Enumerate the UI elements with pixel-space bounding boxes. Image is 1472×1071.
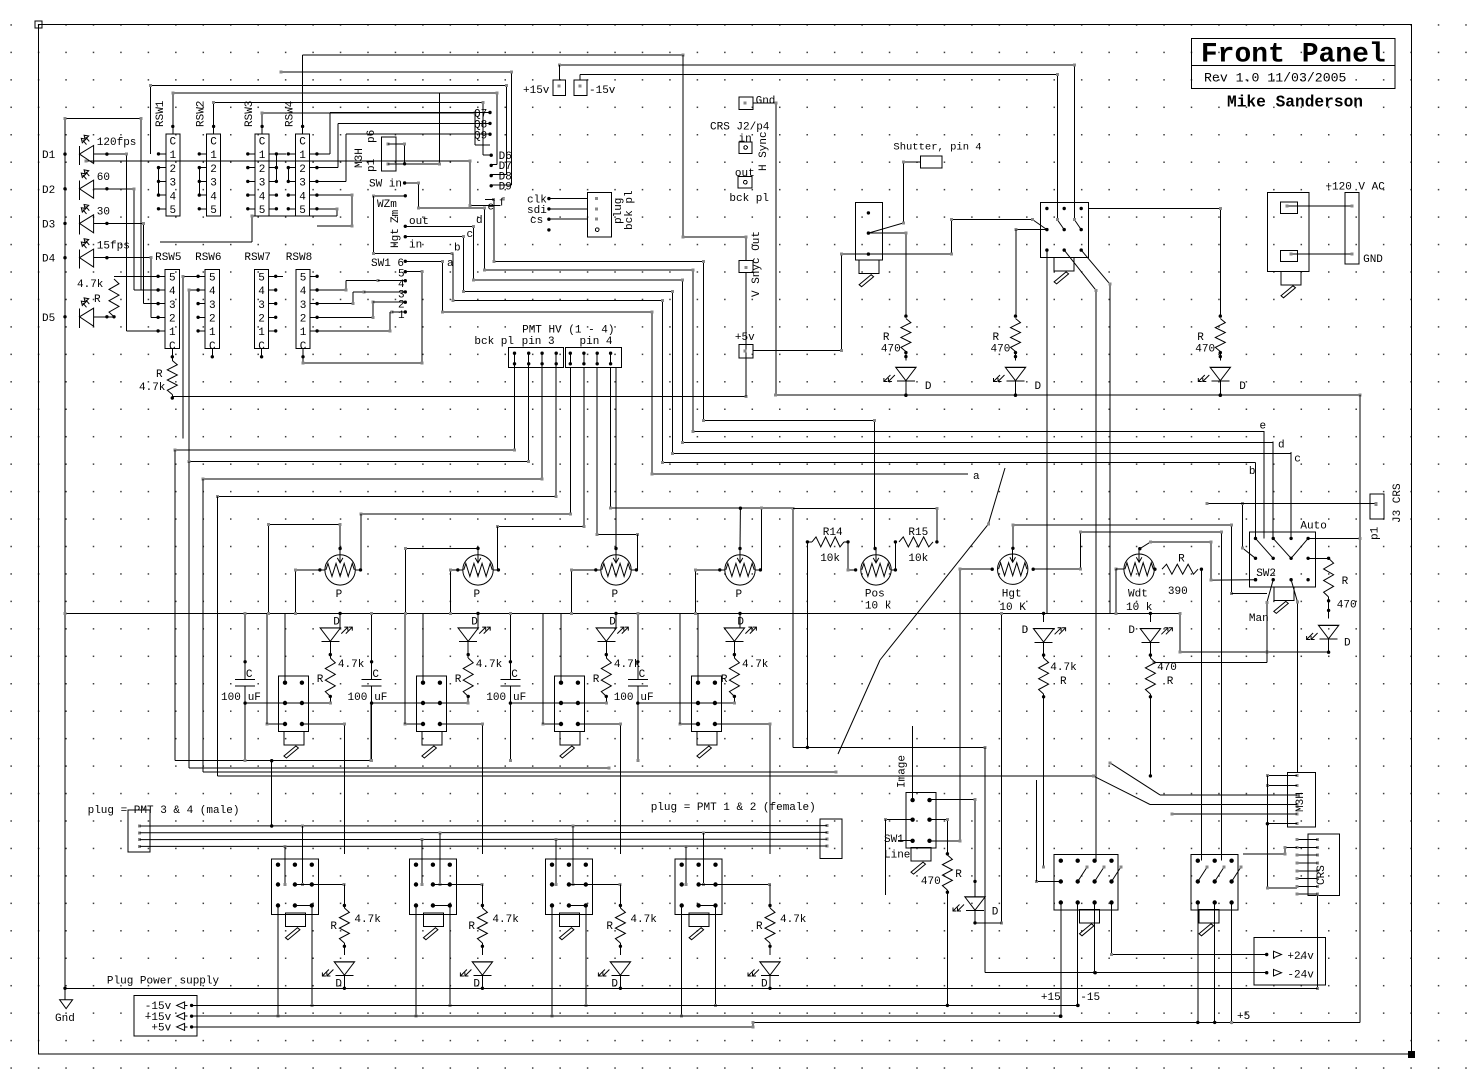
wire P1 left (294, 568, 325, 615)
svg-text:pin 4: pin 4 (580, 336, 613, 348)
svg-text:4.7k: 4.7k (742, 659, 769, 671)
svg-text:2: 2 (169, 314, 176, 326)
wire D1 feed (339, 613, 341, 628)
wire RSW4 bracket a (287, 168, 289, 182)
node R sw2 dots (1327, 599, 1330, 612)
svg-text:P: P (736, 589, 743, 601)
rotary switch RSW1 (166, 134, 180, 216)
wire P2 wiper (404, 547, 479, 615)
wire PMT pin3 drop (202, 364, 544, 481)
wire B3 col3 drop (584, 906, 587, 1007)
node R390 right (1200, 568, 1203, 571)
wire R470-1 to led (905, 352, 907, 361)
svg-text:SW2: SW2 (1256, 568, 1276, 580)
node Hgt led bus (1042, 612, 1045, 615)
LED D (SW2) (1307, 625, 1339, 639)
wire RSW6 pin 3 stub (196, 302, 205, 305)
svg-text:3: 3 (258, 300, 265, 312)
wire M3H pin1 (1266, 774, 1297, 777)
svg-text:R: R (94, 294, 101, 306)
wire C1 col2 drop (1076, 903, 1079, 1008)
wire P1 right riser (360, 514, 362, 570)
wire C2 col2 drop (1213, 903, 1216, 1025)
svg-text:D1: D1 (42, 150, 56, 162)
wire M3H p6 (388, 143, 406, 164)
wire LED B1 gnd (343, 976, 346, 990)
wire -24v in (1254, 972, 1267, 974)
wire WZm left (372, 196, 454, 255)
svg-text:3: 3 (209, 300, 216, 312)
node P2 bus (476, 612, 479, 615)
LED D (R470-2) (994, 367, 1026, 381)
svg-text:D9: D9 (499, 182, 512, 194)
svg-text:2: 2 (209, 314, 216, 326)
svg-text:390: 390 (1168, 586, 1188, 598)
wire RSW3 C pin (260, 125, 263, 134)
switch contact box (P3) (554, 676, 584, 732)
wire V sync down (745, 273, 747, 397)
switch contact box (P2) (416, 676, 446, 732)
wire c drop (1290, 452, 1292, 538)
pin plug bck pl 3 (595, 218, 598, 221)
svg-text:Front Panel: Front Panel (1201, 40, 1386, 71)
svg-text:-15: -15 (1080, 992, 1100, 1004)
rotary switch RSW4 (296, 134, 310, 216)
svg-text:e: e (488, 202, 495, 214)
wire RSW8 pin 2 stub (310, 316, 319, 319)
wire D2 to R (467, 642, 470, 658)
svg-text:uF: uF (513, 692, 526, 704)
wire R14 top (793, 507, 939, 542)
wire RSW4 C riser (302, 55, 304, 126)
LED D B4 (748, 962, 780, 976)
svg-text:4.7k: 4.7k (476, 659, 503, 671)
wire R15 to pot (891, 542, 897, 572)
wire pb-right diag2 (1081, 250, 1111, 613)
svg-text:Pos: Pos (865, 589, 885, 601)
switch SW2 (1249, 532, 1315, 587)
wire b drop (1255, 463, 1257, 539)
svg-text:10 k: 10 k (865, 601, 892, 613)
wire C1 row2 in (1035, 880, 1061, 883)
wire bus y85 (149, 84, 508, 174)
wire RSW7 pin 2 stub (269, 316, 278, 319)
wire RSW5 pin 4 stub (156, 288, 165, 291)
wire C1 feed (243, 612, 246, 680)
wire box3 row2 (510, 701, 579, 704)
wire cs (549, 218, 588, 220)
svg-text:c: c (467, 229, 474, 241)
wire RSW6 pin 2 stub (196, 316, 205, 319)
wire RSW3 left pin 4 stub (246, 193, 255, 196)
connector Shutter (920, 156, 942, 168)
pin SW1 1 (404, 310, 407, 313)
wire PMT pin6 drop (496, 367, 585, 570)
svg-text:f: f (499, 198, 506, 210)
switch contact box B1 (271, 859, 318, 915)
svg-text:120fps: 120fps (97, 137, 137, 149)
node f (492, 198, 495, 201)
svg-text:p1: p1 (1370, 526, 1382, 540)
connector 120V AC actuator (1281, 271, 1301, 298)
wire RSW8 pin 3 stub (310, 302, 319, 305)
wire Wdt R out (1149, 694, 1152, 778)
svg-text:R: R (468, 921, 475, 933)
wire R14 stub (807, 541, 812, 543)
svg-text:bck pl: bck pl (474, 336, 514, 348)
node P4 bus (738, 612, 741, 615)
svg-text:C: C (210, 137, 217, 149)
svg-text:4.7k: 4.7k (1050, 662, 1077, 674)
wire -24v feed (985, 747, 1267, 974)
wire M3H pin4 (1092, 774, 1297, 804)
resistor R470-2 470 (1011, 319, 1021, 352)
svg-text:R: R (606, 921, 613, 933)
wire RSW5 pin 1 stub (156, 329, 165, 332)
svg-text:470: 470 (881, 344, 901, 356)
svg-text:plug = PMT 1 & 2 (female): plug = PMT 1 & 2 (female) (651, 802, 816, 814)
wire RSW2 left pin 2 stub (198, 166, 207, 169)
svg-text:R: R (455, 674, 462, 686)
switch contact box C2 (1191, 855, 1238, 911)
svg-text:H Sync: H Sync (758, 131, 770, 171)
wire box1 row3 left drop (266, 613, 268, 724)
resistor R B4 4.7k (765, 908, 775, 943)
potentiometer Hgt (998, 548, 1028, 585)
wire R1 out (301, 695, 332, 705)
wire C3 feed (509, 612, 512, 680)
wire RSW1 left pin 4 stub (157, 193, 166, 196)
wire SW1-5 drop (405, 270, 423, 365)
wire pmt line4 (140, 845, 828, 848)
wire RSW3 bracket (275, 154, 277, 182)
wire diagonal a (838, 468, 1005, 754)
wire B4 col1 drop (680, 906, 683, 1018)
LED D (P1) (320, 627, 352, 642)
wire Hgt wiper (1011, 524, 1233, 595)
potentiometer P4 (725, 548, 755, 585)
svg-text:R15: R15 (908, 527, 928, 539)
pin Hgt in (404, 235, 407, 238)
wire SW1 row2 out (930, 818, 950, 855)
wire CRS pin6 (1296, 877, 1318, 880)
wire D2 feed (477, 613, 479, 628)
svg-text:5: 5 (259, 205, 266, 217)
node R470-1 mid (904, 351, 907, 358)
LED D3 symbol (80, 205, 94, 235)
wire RSW6 pin 1 stub (196, 329, 205, 332)
svg-text:2: 2 (258, 314, 265, 326)
svg-text:GND: GND (1363, 254, 1383, 266)
pin SW1 5 (404, 270, 407, 273)
wire pmt line2 (140, 831, 828, 834)
wire RSW3 pin1 to RSW4 area (276, 153, 286, 155)
rotary switch RSW5 (165, 269, 179, 348)
wire RSW5 pin 3 stub (156, 302, 165, 305)
svg-text:RSW2: RSW2 (196, 101, 208, 127)
wire box3 row1 up (560, 613, 562, 682)
wire C4 out (636, 686, 639, 762)
svg-text:4: 4 (299, 191, 306, 203)
svg-text:30: 30 (97, 206, 110, 218)
wire RSW2 left pin 3 stub (198, 180, 207, 183)
wire -15v stub (579, 75, 581, 80)
connector PMT HV pin4 (566, 347, 622, 367)
wire SW2 row3 arm2 (1265, 580, 1273, 653)
wire box3 row3 (542, 722, 563, 725)
svg-text:RSW7: RSW7 (244, 252, 270, 264)
wire R14 to pot (844, 542, 856, 572)
wire rail-plug riser (270, 759, 273, 828)
wire J3 p1 net (1243, 502, 1378, 505)
switch contact box (P2) actuator (422, 732, 442, 759)
connector plug bck pl (588, 192, 612, 237)
svg-text:1: 1 (258, 327, 265, 339)
wire RSW4 pin5 stub2 (160, 207, 339, 242)
wire PMT pin3 drop2 (203, 479, 837, 774)
wire pmt line3 (140, 838, 828, 841)
svg-text:R: R (756, 921, 763, 933)
pin +5v (177, 1023, 188, 1030)
wire Wdt wiper (1140, 541, 1257, 582)
wire Wdt led feed (1149, 613, 1151, 622)
switch contact box (P4) (691, 676, 721, 732)
wire SW1 row2 in (884, 818, 912, 821)
rail +15v (192, 1015, 1063, 1018)
wire RSW7 pin 3 stub (269, 302, 278, 305)
wire RSW6 pin 4 stub (196, 288, 205, 291)
svg-text:R: R (1342, 576, 1349, 588)
wire RSW8 pin4 r (317, 279, 380, 291)
svg-text:Man: Man (1249, 613, 1269, 625)
wire P2 right stub (493, 568, 500, 571)
wire PMT pin5 drop (360, 367, 572, 570)
wire net A top (303, 54, 685, 57)
svg-text:P: P (474, 589, 481, 601)
switch contact box B2 (409, 859, 456, 915)
wire CRS gnd rail riser (1316, 896, 1319, 990)
wire shutter (902, 161, 921, 224)
pin SW1 3 (404, 290, 407, 293)
wire R470-3 to led (1219, 352, 1221, 361)
wire C2 arm1 (1215, 866, 1226, 882)
svg-text:RSW1: RSW1 (155, 100, 167, 127)
svg-text:100: 100 (348, 692, 368, 704)
svg-text:cs: cs (530, 215, 543, 227)
wire 120V hot (1285, 205, 1353, 208)
pin +15v (177, 1013, 188, 1020)
svg-text:R: R (1167, 676, 1174, 688)
svg-text:e: e (1260, 421, 1267, 433)
node R15 left (894, 540, 897, 543)
svg-text:3: 3 (169, 300, 176, 312)
wire C2 arm2 (1232, 866, 1243, 882)
wire SW2 row1 out (1308, 537, 1361, 540)
node Wdt led bus (1149, 612, 1152, 615)
wire C1 arm2 (1095, 866, 1106, 882)
svg-text:3: 3 (169, 178, 176, 190)
wire pmt drop b3a (555, 840, 558, 886)
node R470-3 mid (1219, 351, 1222, 358)
pin PMT HV 5 (569, 352, 572, 366)
wire C1 col4 drop (1110, 903, 1267, 957)
svg-text:4: 4 (169, 286, 176, 298)
svg-text:+15v: +15v (523, 85, 550, 97)
resistor R (P1) 4.7k (325, 658, 335, 696)
wire net b (451, 254, 1255, 465)
wire D5 cathode (94, 315, 116, 318)
node Pos left (854, 568, 857, 571)
wire P2 left (449, 568, 463, 615)
wire box4 row3 left drop (679, 613, 681, 724)
potentiometer P1 (325, 548, 355, 585)
svg-text:10k: 10k (820, 553, 840, 565)
node Wdt wiper (1138, 547, 1141, 550)
wire RSW2 C riser (212, 101, 491, 155)
wire box4 row1 up (697, 613, 699, 682)
wire D2 cathode (94, 187, 159, 290)
capacitor C3 100uF (500, 680, 520, 686)
svg-text:2: 2 (299, 164, 306, 176)
wire RSW6 pins drop a (182, 275, 199, 439)
wire box3 row3 out (576, 722, 622, 853)
svg-text:4: 4 (259, 191, 266, 203)
svg-text:5: 5 (169, 205, 176, 217)
svg-text:4.7k: 4.7k (139, 382, 166, 394)
wire RSW4 pins right cascade c (317, 133, 492, 182)
LED D B2 (460, 962, 492, 976)
connector Gnd (739, 97, 753, 109)
svg-text:R: R (1197, 332, 1204, 344)
wire C2 col1 drop (1196, 903, 1199, 1025)
wire CRS pin5 (1296, 869, 1318, 872)
wire B3 col1 drop (551, 906, 554, 1018)
wire Wdt led out (1149, 642, 1152, 658)
wire RSW7 pin5 r (276, 275, 283, 277)
rotary switch RSW7 (254, 269, 268, 348)
svg-text:1: 1 (300, 327, 307, 339)
svg-text:R: R (1060, 676, 1067, 688)
svg-text:5: 5 (299, 205, 306, 217)
pin PMT HV 4 (555, 352, 558, 366)
wire SW1-3 link (364, 291, 405, 293)
node P3 bus (614, 612, 617, 615)
svg-text:5: 5 (209, 273, 216, 285)
node gnd rail (63, 987, 66, 990)
svg-text:100: 100 (221, 692, 241, 704)
LED D5 symbol (80, 298, 94, 328)
wire gnd bus horiz (774, 394, 1362, 397)
wire +5v rail (753, 254, 843, 352)
wire pos bottom rail (793, 746, 987, 749)
wire pmt drop b4b (702, 833, 705, 886)
wire Hgt right (1033, 530, 1223, 860)
LED D2 symbol (80, 170, 94, 200)
svg-text:D: D (471, 617, 478, 629)
svg-text:4.7k: 4.7k (338, 659, 365, 671)
wire pmt drop b2b (439, 833, 442, 886)
switch SW1 actuator (911, 848, 931, 875)
wire B1 col1 drop (277, 906, 280, 1018)
switch contact box (P1) (278, 676, 308, 732)
wire pmt drop b2a (420, 840, 423, 886)
svg-text:10 K: 10 K (999, 602, 1026, 614)
connector H sync out (738, 176, 752, 188)
node R470-2 mid (1014, 351, 1017, 358)
LED D (P4) (724, 627, 756, 642)
switch pushbutton left (856, 202, 883, 260)
wire PMT pin2 drop2 (189, 462, 611, 770)
resistor R470-1 470 (901, 319, 911, 352)
switch contact box B2 actuator (423, 913, 443, 940)
wire RSW4 right pin 5 stub (310, 207, 319, 210)
wire Man link (1232, 593, 1267, 595)
wire B2 row2 link (431, 883, 483, 886)
rail +5v (192, 1021, 1360, 1029)
pin clk (547, 197, 550, 200)
wire RSW5 pin 5 stub (156, 275, 165, 278)
svg-text:5: 5 (300, 273, 307, 285)
pin cs (547, 218, 550, 221)
wire pb-left arm (868, 222, 904, 234)
wire C1 row2 in drop (1035, 780, 1037, 882)
svg-text:2: 2 (169, 164, 176, 176)
svg-text:b: b (454, 243, 461, 255)
wire pmt drop b1b (301, 826, 304, 886)
svg-text:R: R (593, 674, 600, 686)
wire PMT pin1 drop (173, 364, 516, 452)
wire RSW4 right pin 2 stub (310, 166, 319, 169)
node Wdt right (1153, 568, 1156, 571)
svg-text:C: C (299, 137, 306, 149)
svg-text:c: c (1294, 454, 1301, 466)
svg-text:RSW5: RSW5 (155, 252, 181, 264)
switch contact box B4 (675, 859, 722, 915)
svg-text:plug = PMT 3 & 4 (male): plug = PMT 3 & 4 (male) (88, 805, 240, 817)
wire SW1-1 link (392, 311, 406, 313)
svg-text:Shutter, pin 4: Shutter, pin 4 (893, 142, 981, 154)
wire RSW3 right pin 5 stub (269, 207, 278, 210)
wire RSW4 right pin 3 stub (310, 180, 319, 183)
wire box2 row3 out (438, 722, 484, 853)
svg-text:R: R (955, 869, 962, 881)
wire RSW7 pin 1 stub (269, 329, 278, 332)
wire M3H vert (1266, 776, 1297, 890)
svg-text:p6: p6 (366, 130, 378, 143)
node Hgt left (991, 568, 994, 571)
wire SW1 image riser (912, 726, 914, 799)
wire D3 cathode (94, 222, 159, 304)
connector M3H bottom (1288, 772, 1316, 827)
wire PMT pin7 drop (596, 367, 639, 570)
switch contact box C1 actuator (1080, 909, 1100, 936)
pin -24v (1265, 969, 1282, 976)
svg-text:D: D (992, 907, 999, 919)
wire RSW1 C pin (171, 125, 174, 134)
wire box1 row3 out (300, 722, 346, 853)
svg-text:Hgt: Hgt (390, 228, 402, 248)
LED D (P3) (596, 627, 628, 642)
svg-text:470: 470 (1157, 662, 1177, 674)
wire RSW2 C pin (212, 125, 215, 134)
svg-text:10 k: 10 k (1126, 602, 1153, 614)
svg-text:60: 60 (97, 172, 110, 184)
svg-text:4.7k: 4.7k (630, 914, 657, 926)
svg-text:in: in (409, 240, 422, 252)
svg-text:d: d (476, 215, 483, 227)
resistor R SW1 470 (942, 855, 952, 890)
svg-text:D: D (609, 617, 616, 629)
